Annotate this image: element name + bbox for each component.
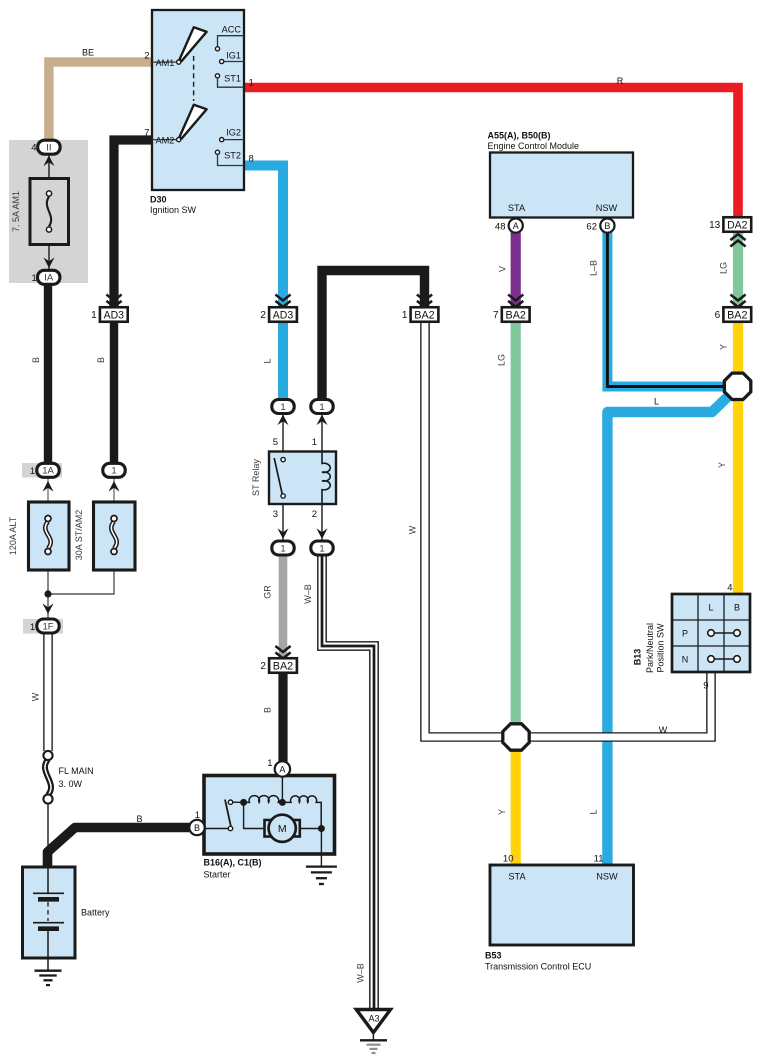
ignition AM1 pole and lever (152, 61, 177, 63)
fusible link FL MAIN (45, 760, 51, 796)
svg-text:A: A (513, 221, 519, 231)
grey fuse-block background (9, 140, 88, 283)
arrow up into oval 1 (30A fuse) (109, 481, 120, 492)
svg-text:LG: LG (497, 354, 507, 366)
line 1A oval to fuse 120A ALT (47, 477, 49, 502)
relay switch blade (281, 457, 285, 461)
svg-text:7: 7 (144, 127, 149, 138)
ignition switch D30 box (152, 10, 244, 190)
B13 P row contacts (711, 632, 737, 634)
relay coil (322, 452, 330, 505)
svg-text:IG1: IG1 (226, 50, 241, 60)
starter pin 1 B (189, 820, 204, 835)
svg-text:DA2: DA2 (727, 219, 747, 231)
svg-text:1: 1 (280, 543, 285, 554)
svg-text:W: W (408, 525, 418, 534)
svg-text:1: 1 (195, 810, 200, 821)
svg-text:R: R (617, 76, 624, 86)
double chevron into 7 BA2 (508, 295, 523, 307)
battery ground (47, 958, 49, 971)
svg-text:L: L (654, 397, 659, 407)
svg-text:B: B (31, 357, 41, 363)
svg-text:Park/Neutral: Park/Neutral (645, 623, 655, 673)
line relay pin2 to oval (321, 504, 323, 541)
ECM box A55/B50 (490, 153, 633, 218)
connector II (38, 140, 60, 154)
line II oval to AM1 fuse (48, 154, 50, 179)
arrow down into IA oval (44, 257, 55, 268)
svg-text:BA2: BA2 (727, 309, 747, 321)
svg-text:B: B (734, 603, 740, 613)
line relay pin3 to oval (282, 498, 284, 541)
ignition ST2 contact (215, 150, 219, 154)
svg-text:BE: BE (82, 48, 94, 58)
svg-text:1F: 1F (42, 621, 53, 632)
svg-text:FL MAIN: FL MAIN (59, 766, 94, 776)
fuse 30A ST/AM2 element (111, 522, 116, 549)
wire L blue AD3 to relay pin5 oval (278, 321, 288, 400)
grey highlight behind connector 1A (22, 463, 62, 478)
svg-text:STA: STA (508, 203, 526, 213)
starter terminal line from A (281, 776, 283, 803)
line FL MAIN to battery (47, 799, 49, 868)
svg-text:B13: B13 (633, 649, 643, 666)
splice octagon center (503, 724, 529, 750)
svg-text:1: 1 (267, 758, 272, 769)
svg-text:V: V (498, 266, 508, 272)
relay pin3 oval (272, 541, 294, 555)
svg-text:D30: D30 (150, 195, 167, 205)
svg-text:1: 1 (280, 402, 285, 413)
ignition IG1 contact (224, 61, 244, 63)
wire L blue octagon to B53 NSW (607, 394, 730, 865)
starter field coils (244, 796, 283, 803)
starter motor feed lines (244, 802, 264, 828)
svg-text:7. 5A AM1: 7. 5A AM1 (11, 191, 21, 232)
svg-text:7: 7 (493, 310, 499, 321)
svg-text:L: L (589, 809, 599, 814)
svg-text:Position SW: Position SW (656, 623, 666, 673)
svg-text:L: L (263, 358, 273, 363)
relay pin2 oval (311, 541, 333, 555)
wire Y yellow octagon to B53 STA (511, 750, 521, 865)
svg-text:62: 62 (586, 222, 597, 233)
double chevron into 1 BA2 (417, 295, 432, 307)
starter ground (320, 854, 322, 867)
svg-text:1: 1 (30, 466, 35, 477)
svg-text:LG: LG (719, 262, 729, 274)
svg-text:B53: B53 (485, 951, 502, 961)
svg-text:2: 2 (260, 661, 266, 672)
svg-text:1: 1 (111, 466, 116, 477)
fuse 30A ST/AM2 box (94, 502, 136, 570)
double chevron into 2 AD3 (275, 295, 290, 307)
svg-text:STA: STA (508, 872, 526, 882)
svg-text:1: 1 (249, 77, 254, 88)
wire B black 2 BA2 to starter A (278, 672, 287, 762)
svg-text:B: B (263, 707, 273, 713)
svg-text:BA2: BA2 (414, 309, 434, 321)
svg-text:L: L (708, 603, 713, 613)
ignition AM2 pole and lever (152, 139, 177, 141)
wire LG green 7 BA2 to octagon splice (511, 321, 521, 724)
wire Y yellow 6 BA2 through octagon to B13 pin4 (733, 321, 743, 594)
starter junction dots (240, 799, 247, 806)
connector 2 BA2 (269, 658, 297, 673)
svg-text:Battery: Battery (81, 908, 110, 918)
wire LG green DA2 to 6 BA2 (733, 231, 743, 308)
svg-text:13: 13 (709, 220, 721, 231)
wire W-B relay pin2 to ground A3 (322, 555, 374, 1009)
svg-text:AM2: AM2 (156, 136, 175, 146)
svg-text:2: 2 (144, 50, 149, 61)
wire L (blue) ST2 to connector AD3 (244, 166, 283, 309)
svg-text:30A ST/AM2: 30A ST/AM2 (74, 510, 84, 561)
line AM1 fuse to IA oval (48, 245, 50, 272)
svg-text:GR: GR (263, 585, 273, 599)
svg-text:3: 3 (273, 509, 278, 520)
wire W white connector 1 BA2 to octagon2 to B13 pin9 (425, 321, 711, 737)
svg-text:Y: Y (497, 809, 507, 815)
fuse 120A ALT element (45, 522, 50, 549)
wire B black below AD3 to fuse 30A (110, 321, 118, 464)
connector 1 (30A fuse) (103, 463, 125, 477)
svg-text:1: 1 (312, 437, 317, 448)
svg-text:1: 1 (319, 402, 324, 413)
line fuse 120A ALT to junction (47, 570, 49, 619)
connector 7 BA2 (502, 307, 530, 322)
svg-text:AM1: AM1 (156, 58, 175, 68)
svg-text:AD3: AD3 (273, 309, 293, 321)
svg-text:10: 10 (503, 854, 514, 865)
arrow up into II oval (43, 156, 54, 167)
connector 2 AD3 (269, 307, 297, 322)
svg-text:A3: A3 (368, 1014, 379, 1024)
svg-text:B: B (194, 823, 200, 833)
wire GR grey relay pin3 to connector 2 BA2 (279, 555, 288, 659)
svg-text:5: 5 (273, 437, 278, 448)
line relay pin5 oval to relay (282, 413, 284, 456)
svg-text:B: B (136, 814, 142, 824)
line fuse 30A ST/AM2 to junction (48, 570, 114, 594)
svg-text:BA2: BA2 (506, 309, 526, 321)
svg-text:IG2: IG2 (226, 127, 241, 137)
ST relay box (269, 452, 336, 505)
wire W white fuse 1F to FL MAIN (43, 633, 53, 751)
arrow up into 1A oval (43, 481, 54, 492)
arrow down into relay pin3 oval (278, 528, 289, 539)
svg-text:1: 1 (91, 310, 97, 321)
svg-text:1: 1 (32, 273, 37, 284)
splice octagon right (724, 373, 750, 399)
svg-text:120A ALT: 120A ALT (8, 516, 18, 555)
double chevron into 1 AD3 (106, 295, 121, 307)
svg-text:B: B (96, 357, 106, 363)
svg-text:B: B (604, 221, 610, 231)
svg-text:8: 8 (249, 154, 254, 165)
svg-text:4: 4 (727, 583, 732, 594)
battery cells (47, 867, 49, 893)
svg-text:3. 0W: 3. 0W (59, 779, 83, 789)
ground A3 symbol (372, 1033, 374, 1041)
svg-text:NSW: NSW (596, 203, 618, 213)
svg-text:NSW: NSW (596, 872, 618, 882)
line relay pin1 oval to relay (321, 413, 323, 452)
ignition ACC contact (218, 36, 245, 47)
arrow down into 1F oval (43, 603, 54, 614)
svg-text:W–B: W–B (356, 963, 366, 983)
svg-text:N: N (682, 655, 689, 665)
svg-text:4: 4 (31, 143, 36, 154)
wire B black relay pin1 oval up to connector 1 BA2 (322, 271, 425, 400)
wire B black starter B to battery (48, 828, 198, 868)
svg-text:1: 1 (30, 622, 35, 633)
svg-text:W: W (31, 692, 41, 701)
double chevron into 2 BA2 (275, 646, 290, 658)
arrow down into relay pin2 oval (317, 528, 328, 539)
wire V purple ECM STA to 7 BA2 (511, 232, 521, 308)
svg-text:ST Relay: ST Relay (251, 459, 261, 496)
svg-text:1: 1 (319, 543, 324, 554)
starter pin 1 A (275, 761, 290, 776)
svg-text:Y: Y (719, 344, 729, 350)
starter box B16/C1 (204, 776, 335, 855)
svg-text:Transmission Control ECU: Transmission Control ECU (485, 962, 591, 972)
svg-text:BA2: BA2 (273, 660, 293, 672)
svg-text:L–B: L–B (589, 260, 599, 276)
connector 1 AD3 (100, 307, 128, 322)
wire R (red) ST1 to DA2 (244, 88, 738, 219)
relay pin5 oval (272, 400, 294, 414)
B13 park/neutral switch box (672, 594, 750, 672)
grey highlight behind connector 1F (23, 619, 63, 634)
svg-text:Y: Y (717, 462, 727, 468)
ECM pin 48 A (509, 219, 523, 233)
fuse 7.5A AM1 box (30, 179, 69, 245)
svg-text:Starter: Starter (204, 870, 231, 880)
wire BE (beige) AM1 to fuse II (49, 62, 152, 142)
connector 6 BA2 (723, 307, 751, 322)
svg-text:P: P (682, 629, 688, 639)
svg-text:1A: 1A (42, 466, 54, 477)
svg-text:A: A (279, 764, 285, 774)
connector 1 BA2 (411, 307, 439, 322)
junction dot below fuses (44, 590, 51, 597)
svg-text:2: 2 (260, 310, 266, 321)
svg-text:Ignition SW: Ignition SW (150, 205, 197, 215)
wire B (black) AM2 down to connector AD3 (114, 140, 152, 308)
B53 transmission ECU box (490, 865, 634, 945)
relay pin1 oval (311, 400, 333, 414)
wire L-B blue/black ECM NSW to octagon (607, 232, 723, 387)
ignition dashed link (193, 56, 195, 101)
svg-text:ST2: ST2 (224, 150, 241, 160)
arrow up into relay pin5 oval (278, 415, 289, 426)
wire B black below fuse block to 1A (44, 283, 52, 464)
svg-text:ST1: ST1 (224, 74, 241, 84)
svg-text:11: 11 (594, 854, 604, 865)
fuse 7.5A AM1 element (47, 197, 51, 227)
svg-text:6: 6 (715, 310, 721, 321)
svg-text:48: 48 (495, 222, 506, 233)
svg-text:W–B: W–B (303, 584, 313, 604)
B13 N row contacts (711, 658, 737, 660)
svg-text:W: W (659, 725, 668, 735)
starter switch (205, 828, 229, 830)
connector IA (38, 270, 60, 284)
svg-text:1: 1 (402, 310, 408, 321)
double chevron up into 13 DA2 (730, 234, 745, 246)
svg-text:A55(A), B50(B): A55(A), B50(B) (488, 131, 551, 141)
ignition IG2 contact (224, 139, 244, 141)
connector 13 DA2 (723, 217, 751, 232)
connector 1A (37, 463, 59, 477)
ECM pin 62 B (600, 219, 614, 233)
arrow up into relay pin1 oval (317, 415, 328, 426)
svg-text:Engine Control Module: Engine Control Module (488, 141, 580, 151)
svg-text:B16(A), C1(B): B16(A), C1(B) (204, 858, 262, 868)
line oval 1 to fuse 30A ST/AM2 (113, 477, 115, 502)
starter motor M (265, 820, 273, 837)
svg-text:II: II (46, 143, 51, 154)
ground triangle A3 (356, 1010, 390, 1033)
fuse 120A ALT box (29, 502, 70, 570)
battery box (23, 867, 76, 958)
svg-text:M: M (278, 823, 287, 835)
svg-text:IA: IA (44, 273, 54, 284)
double chevron into 6 BA2 (730, 295, 745, 307)
svg-text:2: 2 (312, 509, 317, 520)
svg-text:AD3: AD3 (104, 309, 124, 321)
ignition ST1 contact (215, 74, 219, 78)
svg-text:ACC: ACC (222, 25, 242, 35)
connector 1F (37, 619, 59, 633)
svg-text:9: 9 (703, 681, 708, 692)
